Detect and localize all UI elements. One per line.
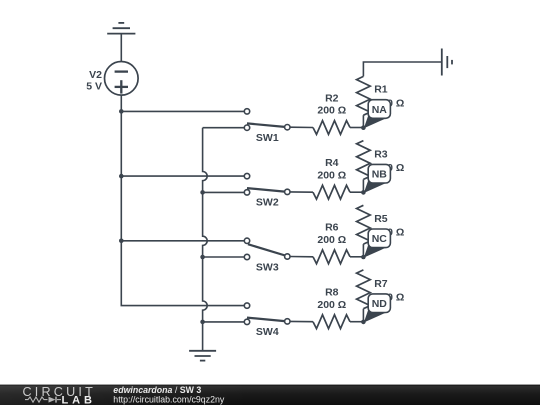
node ND junction	[361, 320, 366, 325]
wire (R6 to node NC)	[350, 256, 363, 258]
footer bar	[0, 385, 540, 405]
resistor R8	[313, 315, 350, 329]
svg-text:SW4: SW4	[256, 326, 279, 338]
svg-text:5 V: 5 V	[86, 80, 102, 92]
wire (chain top to ground)	[363, 62, 441, 76]
svg-text:R1: R1	[374, 84, 388, 96]
svg-text:http://circuitlab.com/c9qz2ny: http://circuitlab.com/c9qz2ny	[113, 394, 225, 404]
wire (R7 to node ND)	[362, 309, 364, 322]
svg-text:200 Ω: 200 Ω	[317, 299, 346, 311]
ground (bottom)	[189, 351, 216, 361]
wire (SW4 to R8)	[290, 320, 313, 322]
wire (R2 to node NA)	[350, 127, 363, 129]
switch SW4	[244, 303, 290, 325]
svg-text:200 Ω: 200 Ω	[317, 234, 346, 246]
wire (SW1 to R2)	[290, 126, 313, 128]
switch SW3	[244, 238, 290, 260]
footer credit text	[113, 385, 225, 404]
wire (V2 to node)	[120, 95, 122, 111]
svg-text:V2: V2	[89, 69, 102, 81]
node NA flag	[364, 100, 391, 129]
svg-text:SW2: SW2	[256, 197, 279, 209]
wire (SW2 bottom contact)	[203, 191, 245, 193]
svg-text:LAB: LAB	[62, 395, 96, 405]
node (left bus row2)	[119, 174, 124, 179]
svg-text:ND: ND	[372, 298, 388, 310]
node (middle bus SW3)	[200, 255, 205, 260]
wire (SW2 to R4)	[290, 191, 313, 193]
wire (middle bus vertical with hops)	[203, 128, 208, 351]
svg-text:R3: R3	[374, 148, 388, 160]
svg-text:R7: R7	[374, 278, 388, 290]
resistor R4	[313, 185, 350, 199]
ground (top right)	[442, 49, 452, 76]
node NC flag	[364, 229, 391, 258]
wire (SW1 bottom contact)	[203, 127, 245, 129]
wire (SW3 to R6)	[290, 256, 313, 258]
svg-text:NA: NA	[372, 104, 388, 116]
svg-text:R6: R6	[325, 222, 339, 234]
wire (R8 to node ND)	[350, 321, 363, 323]
wire (ground to V2)	[120, 34, 122, 62]
wire (left bus vertical)	[121, 111, 244, 305]
node NA junction	[361, 125, 366, 130]
wire (SW4 bottom contact)	[203, 321, 245, 323]
wire (bus to SW3 top contact)	[121, 240, 244, 242]
svg-text:200 Ω: 200 Ω	[317, 105, 346, 117]
resistor R3	[357, 141, 371, 180]
resistor R5	[357, 205, 371, 244]
wire (R4 to node NB)	[350, 191, 363, 193]
voltage source V2	[105, 62, 139, 96]
svg-text:NC: NC	[372, 233, 388, 245]
svg-text:R8: R8	[325, 287, 339, 299]
node (left bus row3)	[119, 239, 124, 244]
svg-text:200 Ω: 200 Ω	[317, 169, 346, 181]
svg-text:SW1: SW1	[256, 132, 279, 144]
node (V2 output junction)	[119, 109, 124, 114]
resistor R2	[313, 121, 350, 135]
svg-text:R4: R4	[325, 157, 339, 169]
node (middle bus SW4)	[200, 320, 205, 325]
node ND flag	[364, 294, 391, 323]
ground (top, V2 negative)	[107, 23, 135, 34]
wire (R3 to node NB)	[362, 179, 364, 192]
svg-text:R2: R2	[325, 92, 339, 104]
wire (R5 to node NC)	[362, 244, 364, 257]
node NC junction	[361, 255, 366, 260]
node (middle bus SW2)	[200, 190, 205, 195]
switch SW1	[244, 109, 290, 131]
wire (R1 to node NA)	[362, 115, 364, 128]
resistor R7	[357, 270, 371, 309]
node NB junction	[361, 190, 366, 195]
svg-text:NB: NB	[372, 169, 388, 181]
switch SW2	[244, 173, 290, 195]
svg-text:SW3: SW3	[256, 261, 279, 273]
resistor R6	[313, 250, 350, 264]
node NB flag	[364, 164, 391, 193]
svg-text:R5: R5	[374, 213, 388, 225]
CircuitLab logo	[23, 385, 96, 405]
wire (bus to SW2 top contact)	[121, 175, 244, 177]
wire (SW3 bottom contact)	[203, 256, 245, 258]
wire (bus to SW1 top contact)	[121, 110, 244, 112]
resistor R1	[357, 76, 371, 115]
